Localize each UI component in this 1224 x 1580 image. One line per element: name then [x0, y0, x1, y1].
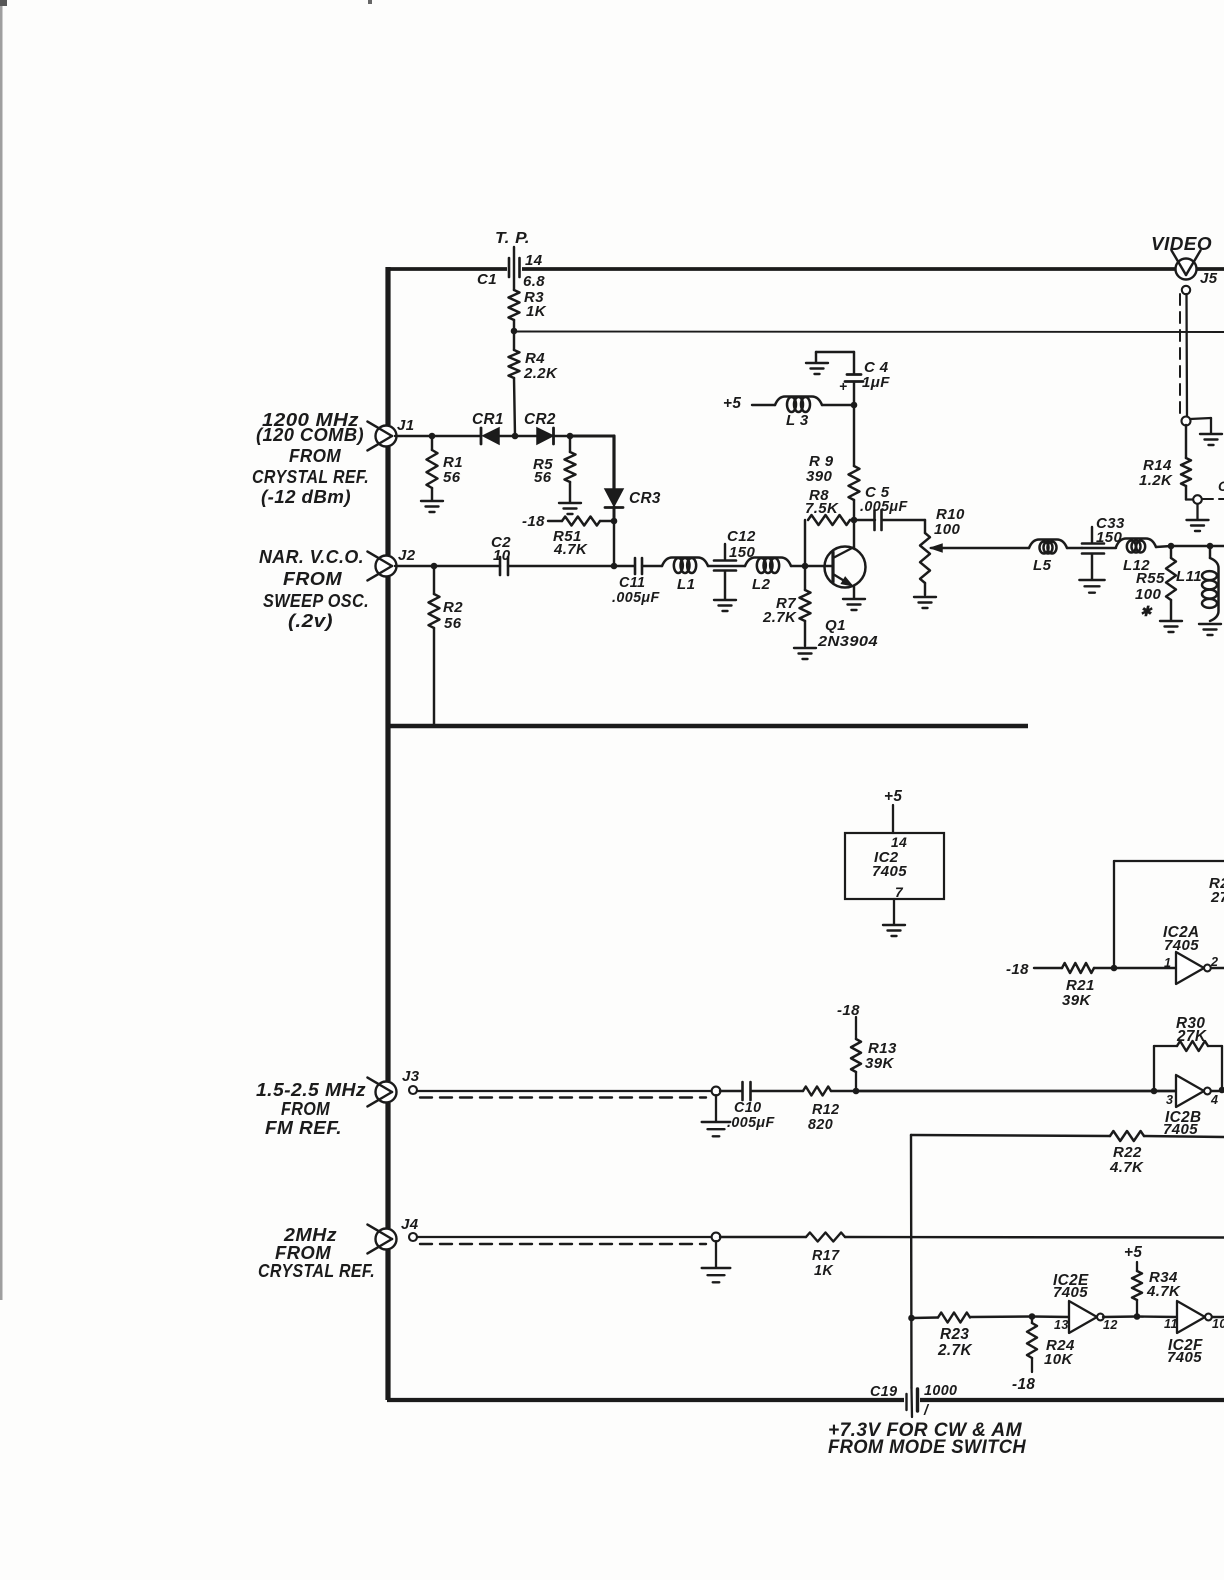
- coax J4 end circle: [712, 1233, 721, 1242]
- svg-text:13: 13: [1054, 1318, 1069, 1332]
- svg-text:10: 10: [493, 547, 511, 564]
- wire R34 node to IC2F: [1137, 1315, 1177, 1318]
- svg-text:CR2: CR2: [524, 411, 556, 428]
- resistor R55: [1135, 546, 1176, 620]
- resistor R22: [1109, 1131, 1224, 1176]
- ground under IC2 box: [883, 925, 905, 936]
- svg-text:390: 390: [806, 468, 832, 485]
- inductor L12: [1116, 539, 1171, 575]
- connector J2: [367, 547, 415, 580]
- svg-text:C19: C19: [870, 1384, 897, 1400]
- wire L5 to C33: [1067, 547, 1082, 549]
- label -18 for R24: [1012, 1376, 1035, 1393]
- ground at coax end: [1200, 434, 1222, 445]
- svg-text:FROM MODE SWITCH: FROM MODE SWITCH: [828, 1437, 1027, 1458]
- node C2/C11/CR3: [611, 563, 618, 570]
- connector J1: [367, 417, 414, 450]
- output circle below R14: [1193, 495, 1202, 504]
- svg-text:C10: C10: [734, 1100, 761, 1116]
- svg-text:1K: 1K: [814, 1263, 834, 1279]
- svg-text:+5: +5: [1124, 1244, 1142, 1261]
- wire R17 to edge: [845, 1236, 1224, 1239]
- diode CR1: [432, 411, 515, 444]
- dashed stub to edge: [1203, 498, 1224, 500]
- wire IC2A output to edge: [1211, 967, 1224, 969]
- wire IC2E output to R34 node: [1103, 1315, 1137, 1318]
- coax shield dashed: [1179, 294, 1181, 414]
- svg-text:4.7K: 4.7K: [553, 541, 588, 558]
- svg-text:2.7K: 2.7K: [937, 1342, 972, 1359]
- connector J4: [367, 1216, 418, 1253]
- wire R55 node to L11 node: [1171, 545, 1210, 547]
- node R21/feedback: [1111, 965, 1118, 972]
- feedback wire IC2B: [1154, 1046, 1177, 1091]
- svg-text:6.8: 6.8: [523, 273, 545, 290]
- svg-text:FROM: FROM: [275, 1243, 332, 1263]
- inverter IC2F: [1164, 1301, 1224, 1366]
- capacitor C1 feedthrough: [477, 252, 545, 290]
- svg-text:FM REF.: FM REF.: [265, 1118, 342, 1138]
- svg-text:R12: R12: [812, 1102, 839, 1118]
- node Q1 base: [802, 563, 809, 570]
- label 1200 MHz input: [252, 410, 369, 507]
- wire coax end to ground: [1190, 418, 1211, 433]
- wire J3 shield to ground: [715, 1095, 717, 1121]
- svg-text:FROM: FROM: [289, 446, 342, 466]
- ground under C33: [1079, 580, 1104, 593]
- node R23/R24: [1029, 1313, 1036, 1320]
- coax J4 shield dashed: [420, 1243, 706, 1245]
- label +5 supply: [723, 395, 741, 412]
- ground under Q1 emitter: [843, 599, 865, 610]
- wire wiper arrow to L5: [931, 544, 1029, 552]
- ground under R7: [794, 648, 816, 659]
- svg-text:1: 1: [1164, 956, 1171, 970]
- label +5 for R34: [1124, 1244, 1142, 1261]
- capacitor C19 feedthrough: [870, 1383, 957, 1419]
- svg-text:(.2v): (.2v): [288, 611, 333, 631]
- wire R3 to node: [513, 320, 515, 331]
- label +7.3V source: [828, 1420, 1027, 1458]
- svg-text:+: +: [839, 379, 847, 394]
- ground under R5: [559, 503, 581, 514]
- wire video feed line: [514, 331, 1224, 334]
- svg-text:(120 COMB): (120 COMB): [256, 425, 364, 445]
- inductor L3: [752, 397, 854, 430]
- node bus/R23: [908, 1315, 915, 1322]
- resistor R4: [509, 331, 559, 436]
- wire CR3 node down to J2 row: [613, 521, 615, 566]
- coax J4 center conductor: [417, 1236, 712, 1238]
- inductor L1: [662, 558, 708, 594]
- node IC2B output: [1219, 1087, 1224, 1094]
- wire T.P. to C1: [513, 247, 515, 290]
- inductor L11: [1176, 546, 1219, 621]
- wire J4 to R17: [720, 1236, 806, 1238]
- svg-text:L2: L2: [752, 576, 771, 593]
- node R34/IC2F: [1134, 1313, 1141, 1320]
- resistor R1: [427, 436, 463, 500]
- wire IC2B output to edge: [1211, 1090, 1224, 1092]
- svg-text:R55: R55: [1136, 570, 1165, 587]
- IC2 power box: [845, 833, 944, 900]
- resistor R10: [920, 506, 965, 595]
- coax J3 start circle: [409, 1086, 417, 1094]
- resistor R24: [1027, 1316, 1075, 1372]
- svg-text:1000: 1000: [924, 1383, 957, 1399]
- inverter IC2E: [1053, 1272, 1118, 1333]
- wire L11 node to edge: [1210, 545, 1224, 547]
- svg-text:1.5-2.5 MHz: 1.5-2.5 MHz: [256, 1080, 366, 1100]
- capacitor C4: [816, 352, 890, 405]
- resistor R30: [1176, 1015, 1222, 1051]
- resistor R12: [803, 1087, 856, 1134]
- connector J3: [367, 1068, 419, 1106]
- inverter IC2A: [1163, 924, 1218, 984]
- svg-text:J2: J2: [398, 547, 416, 564]
- svg-text:7405: 7405: [1053, 1284, 1088, 1301]
- shield divider wall: [388, 724, 1028, 728]
- coax center pin circle: [1182, 286, 1190, 294]
- ground for C4: [806, 363, 828, 374]
- wire L2 to base node: [791, 565, 805, 567]
- node L3/C4: [851, 402, 858, 409]
- ground under L11: [1199, 624, 1221, 635]
- ground under R55: [1160, 621, 1182, 632]
- node R12/R13: [853, 1088, 860, 1095]
- svg-text:C11: C11: [619, 575, 645, 591]
- partial label R29 right edge: [1209, 875, 1224, 906]
- ground J3 shield: [702, 1122, 731, 1136]
- wire J4 shield to ground: [715, 1241, 717, 1267]
- label -18 for R21: [1006, 961, 1029, 978]
- wire CR2 node to CR3: [570, 436, 614, 489]
- svg-text:27: 27: [1210, 889, 1224, 906]
- svg-text:2N3904: 2N3904: [817, 633, 878, 650]
- svg-text:L 3: L 3: [786, 412, 809, 429]
- svg-text:CRYSTAL REF.: CRYSTAL REF.: [252, 467, 369, 487]
- capacitor C11: [612, 558, 662, 606]
- svg-text:T. P.: T. P.: [495, 230, 530, 247]
- svg-text:820: 820: [808, 1117, 833, 1133]
- svg-text:4.7K: 4.7K: [1146, 1283, 1181, 1300]
- resistor R2: [429, 566, 464, 632]
- resistor R9: [806, 405, 860, 520]
- svg-text:FROM: FROM: [283, 569, 343, 589]
- resistor R21: [1034, 963, 1114, 1009]
- feedback wire IC2A: [1114, 861, 1224, 968]
- svg-text:4: 4: [1210, 1093, 1218, 1107]
- svg-text:-18: -18: [522, 513, 545, 530]
- ground under output circle: [1187, 520, 1209, 531]
- svg-text:7405: 7405: [1167, 1349, 1202, 1366]
- svg-text:27K: 27K: [1176, 1028, 1207, 1045]
- svg-text:1K: 1K: [526, 303, 547, 320]
- wire IC2F output to edge: [1212, 1316, 1224, 1318]
- label NAR VCO input: [259, 547, 369, 631]
- label +5 for IC2: [884, 788, 902, 805]
- svg-text:C: C: [1218, 479, 1224, 494]
- shield wall top: [386, 267, 1224, 271]
- label VIDEO output: [1151, 234, 1212, 254]
- coax center conductor: [1185, 294, 1188, 417]
- svg-text:56: 56: [444, 615, 462, 632]
- shield wall left: [385, 267, 390, 1400]
- node J1/R1: [429, 433, 436, 440]
- ground under R10: [914, 597, 936, 608]
- transistor Q1: [805, 520, 878, 650]
- resistor R51: [548, 517, 614, 559]
- inverter IC2B: [1163, 1075, 1218, 1138]
- svg-text:FROM: FROM: [281, 1099, 331, 1119]
- svg-text:SWEEP OSC.: SWEEP OSC.: [263, 591, 369, 611]
- node R9/R8/C5: [851, 517, 858, 524]
- ground under C12: [714, 600, 736, 611]
- svg-text:VIDEO: VIDEO: [1151, 234, 1212, 254]
- svg-text:4.7K: 4.7K: [1109, 1159, 1144, 1176]
- svg-text:L1: L1: [677, 576, 695, 593]
- svg-text:1.2K: 1.2K: [1139, 472, 1173, 489]
- feedback wire IC2B right: [1221, 1046, 1223, 1090]
- ground under R1: [421, 501, 443, 512]
- node CR1/CR2/R4: [512, 433, 519, 440]
- svg-text:56: 56: [534, 469, 552, 486]
- label -18 for R13: [837, 1002, 860, 1019]
- shield wall bottom: [387, 1398, 1224, 1402]
- wire R12 to IC2B: [856, 1090, 1176, 1093]
- svg-text:10: 10: [1212, 1317, 1224, 1331]
- svg-text:R23: R23: [940, 1326, 969, 1343]
- svg-text:C1: C1: [477, 271, 497, 288]
- svg-text:11: 11: [1164, 1317, 1178, 1331]
- wire +5 to IC2 box: [892, 805, 894, 833]
- coax J4 start circle: [409, 1233, 417, 1241]
- wire J2 to R2 node: [395, 565, 434, 567]
- wire R21 node to IC2A: [1114, 967, 1176, 969]
- coax J3 center conductor: [417, 1090, 712, 1092]
- wire IC2 box to ground: [893, 899, 895, 924]
- svg-text:1μF: 1μF: [862, 374, 890, 391]
- resistor R8: [805, 487, 854, 525]
- svg-text:39K: 39K: [865, 1055, 894, 1072]
- svg-text:7405: 7405: [1164, 937, 1199, 954]
- node IC2B input feedback: [1151, 1088, 1158, 1095]
- resistor R17: [806, 1233, 845, 1280]
- svg-text:Q1: Q1: [825, 617, 846, 634]
- svg-text:100: 100: [1135, 586, 1161, 603]
- node CR2/R5: [567, 433, 574, 440]
- svg-text:.005μF: .005μF: [727, 1115, 775, 1131]
- svg-text:3: 3: [1166, 1093, 1173, 1107]
- svg-text:CRYSTAL REF.: CRYSTAL REF.: [258, 1261, 375, 1281]
- svg-text:2.7K: 2.7K: [762, 609, 797, 626]
- label 1.5-2.5 MHz input: [256, 1080, 366, 1138]
- wire J1 to R1 node: [395, 435, 432, 437]
- svg-text:J1: J1: [397, 417, 415, 434]
- svg-text:2.2K: 2.2K: [523, 365, 558, 382]
- node L11: [1207, 543, 1214, 550]
- wire bus corner R22: [911, 1135, 1110, 1136]
- coax J3 shield dashed: [420, 1096, 706, 1098]
- svg-text:C12: C12: [727, 528, 756, 545]
- test point T.P. label: [495, 230, 530, 247]
- svg-text:12: 12: [1103, 1318, 1118, 1332]
- coax J3 end circle: [712, 1087, 721, 1096]
- wire circle to ground: [1196, 504, 1198, 519]
- svg-text:-18: -18: [1006, 961, 1029, 978]
- resistor R34: [1132, 1262, 1181, 1316]
- node R3/R4: [511, 328, 518, 335]
- svg-text:L11: L11: [1176, 568, 1202, 585]
- svg-text:✱: ✱: [1140, 604, 1153, 619]
- svg-text:56: 56: [443, 469, 461, 486]
- node CR3/R51: [611, 518, 618, 525]
- wire R14 to output circle: [1186, 498, 1193, 500]
- svg-text:7.5K: 7.5K: [805, 500, 839, 517]
- resistor R23: [912, 1313, 1033, 1360]
- coax end circle: [1182, 417, 1191, 426]
- svg-text:39K: 39K: [1062, 992, 1091, 1009]
- svg-text:.005μF: .005μF: [612, 590, 660, 606]
- node J2/R2: [431, 563, 438, 570]
- capacitor C5: [854, 484, 925, 530]
- svg-text:(-12 dBm): (-12 dBm): [261, 487, 351, 507]
- partial label C right edge: [1218, 479, 1224, 494]
- resistor R3: [509, 289, 547, 320]
- svg-text:7405: 7405: [872, 863, 907, 880]
- node L12/R55: [1168, 543, 1175, 550]
- inductor L5: [1029, 540, 1067, 575]
- capacitor C2: [434, 534, 614, 575]
- capacitor C33 feedthrough: [1082, 515, 1125, 579]
- page edge shading: [0, 0, 372, 1300]
- svg-text:14: 14: [891, 835, 907, 850]
- wire R2 to divider wall: [433, 628, 435, 726]
- svg-text:CR1: CR1: [472, 411, 504, 428]
- svg-text:NAR. V.C.O.: NAR. V.C.O.: [259, 547, 364, 567]
- connector J5: [1172, 250, 1218, 287]
- svg-text:.005μF: .005μF: [860, 499, 908, 515]
- svg-text:10K: 10K: [1044, 1351, 1073, 1368]
- svg-text:J4: J4: [401, 1216, 419, 1233]
- resistor R14: [1139, 425, 1191, 500]
- ground J4 shield: [702, 1268, 731, 1282]
- capacitor C12 feedthrough: [708, 528, 756, 599]
- svg-text:R17: R17: [812, 1248, 840, 1264]
- capacitor C10: [720, 1082, 803, 1131]
- label 2MHz input: [258, 1225, 375, 1281]
- inductor L2: [745, 558, 791, 594]
- svg-text:+5: +5: [723, 395, 741, 412]
- diode CR2: [515, 411, 570, 444]
- label -18 bias: [522, 513, 545, 530]
- wire R8 left leg: [804, 520, 806, 566]
- resistor R13: [851, 1017, 897, 1091]
- resistor R5: [533, 436, 576, 502]
- resistor R7: [762, 566, 811, 646]
- svg-text:J5: J5: [1200, 270, 1218, 287]
- svg-text:2MHz: 2MHz: [283, 1225, 337, 1245]
- svg-text:-18: -18: [1012, 1376, 1035, 1393]
- svg-text:14: 14: [525, 252, 543, 269]
- diode CR3: [605, 489, 661, 521]
- svg-text:100: 100: [934, 521, 960, 538]
- svg-text:+5: +5: [884, 788, 902, 805]
- svg-text:L5: L5: [1033, 557, 1052, 574]
- svg-text:7: 7: [895, 885, 904, 900]
- svg-text:R2: R2: [443, 599, 463, 616]
- svg-text:CR3: CR3: [629, 490, 661, 507]
- svg-text:J3: J3: [402, 1068, 420, 1085]
- bus wire vertical: [910, 1135, 913, 1388]
- wire R24 node to IC2E: [1032, 1315, 1069, 1318]
